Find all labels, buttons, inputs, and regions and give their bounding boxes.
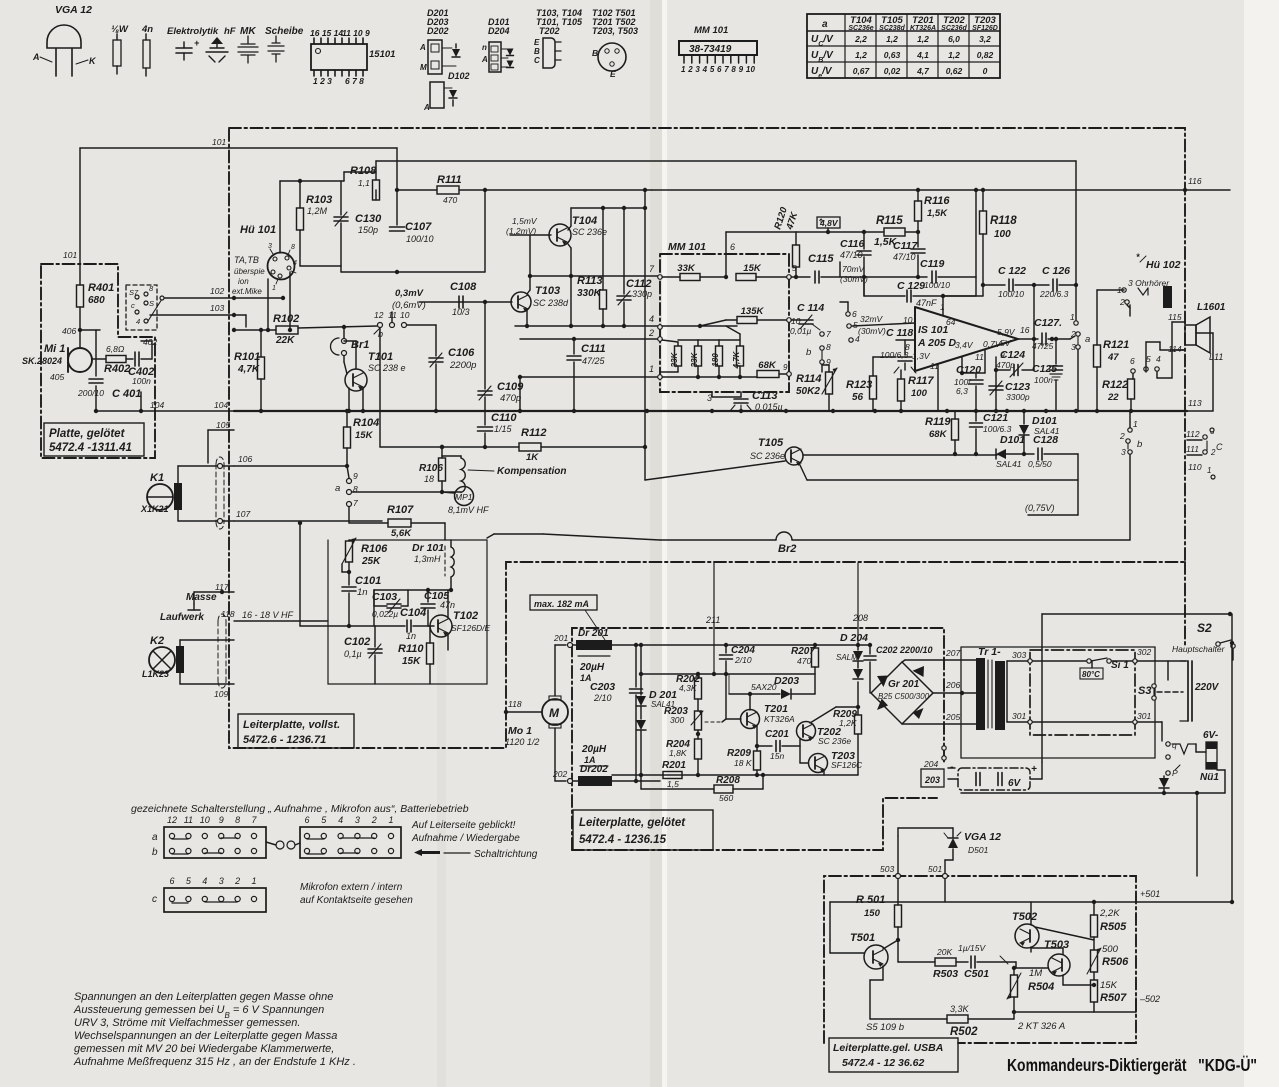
svg-text:A 205 D: A 205 D (917, 337, 957, 349)
svg-text:7: 7 (826, 329, 831, 339)
wire -502 (1093, 1011, 1095, 1013)
wire 102 (162, 297, 283, 299)
svg-text:2: 2 (648, 328, 654, 338)
svg-text:SC 236e: SC 236e (818, 736, 851, 746)
wire module top supply (796, 231, 828, 233)
svg-text:C 126: C 126 (1042, 265, 1070, 277)
jack Hue101 (268, 253, 295, 280)
capacitor C201 (775, 741, 777, 752)
wire contact3 down (1077, 350, 1079, 411)
svg-text:470: 470 (797, 656, 811, 666)
svg-text:6: 6 (304, 815, 309, 825)
wire 272 loop (341, 271, 485, 273)
svg-text:D204: D204 (488, 26, 510, 36)
capacitor C123 (989, 385, 1003, 387)
svg-text:107: 107 (236, 509, 250, 519)
svg-text:Tr 1-: Tr 1- (978, 646, 1001, 658)
resistor R502 (870, 1018, 947, 1020)
svg-text:R123: R123 (846, 379, 872, 391)
power bottom wire (961, 792, 1225, 794)
svg-text:33K: 33K (677, 263, 696, 274)
svg-text:6V: 6V (1008, 778, 1022, 789)
svg-text:C: C (534, 56, 540, 65)
svg-text:MK: MK (240, 26, 256, 37)
switch block a b right (300, 827, 401, 858)
wire battery to S2 rail (1041, 647, 1043, 762)
svg-text:10/3: 10/3 (452, 307, 470, 317)
svg-text:A: A (32, 52, 40, 62)
svg-text:(30mV): (30mV) (858, 326, 886, 336)
relay contact P diode (1166, 771, 1170, 775)
svg-text:1120 1/2: 1120 1/2 (505, 737, 539, 747)
svg-text:1/15: 1/15 (494, 424, 513, 434)
svg-text:D202: D202 (427, 26, 449, 36)
svg-text:3,3K: 3,3K (950, 1004, 970, 1014)
contacts on 944 edge (942, 746, 946, 750)
svg-text:303: 303 (1012, 650, 1026, 660)
svg-text:150: 150 (864, 908, 881, 919)
svg-text:Laufwerk: Laufwerk (160, 612, 204, 623)
svg-text:R208: R208 (716, 775, 740, 786)
resistor R207 (814, 645, 816, 648)
wire T502 collector (1035, 927, 1094, 940)
dashed slider wire R203 (705, 721, 722, 723)
svg-text:500: 500 (1102, 944, 1119, 955)
svg-text:3300p: 3300p (1006, 392, 1030, 402)
svg-text:33K: 33K (670, 351, 679, 367)
wire R504 tap (1021, 987, 1028, 989)
svg-text:Elektrolytik: Elektrolytik (167, 26, 219, 37)
svg-text:C201: C201 (765, 729, 789, 740)
capacitor C116 (863, 232, 865, 249)
svg-text:SC236d: SC236d (941, 25, 967, 32)
capacitor C102 (368, 648, 382, 650)
svg-text:100/6.3: 100/6.3 (983, 424, 1012, 434)
svg-text:T501: T501 (850, 932, 875, 944)
wire T105 emitter (799, 463, 807, 480)
svg-text:R122: R122 (1102, 379, 1128, 391)
fuse Si1 80C (1087, 659, 1091, 663)
svg-text:560: 560 (719, 793, 733, 803)
svg-text:C130: C130 (355, 213, 382, 225)
svg-text:hF: hF (224, 26, 236, 37)
svg-text:20µH: 20µH (579, 662, 605, 673)
svg-text:C111: C111 (581, 343, 606, 355)
svg-text:5: 5 (1146, 354, 1151, 364)
svg-text:12: 12 (167, 815, 177, 825)
transistor T501 (864, 945, 888, 969)
svg-text:+: + (1031, 764, 1037, 775)
svg-text:–502: –502 (1139, 994, 1160, 1004)
svg-text:5,9V: 5,9V (997, 327, 1016, 337)
wire C116 R115 (827, 228, 829, 232)
svg-text:R103: R103 (306, 194, 332, 206)
svg-text:Kommandeurs-Diktiergerät "KD: Kommandeurs-Diktiergerät "KDG-Ü" (1007, 1055, 1257, 1075)
wire T105 base (645, 461, 785, 480)
svg-text:47nF: 47nF (916, 298, 937, 308)
svg-text:c: c (131, 301, 135, 310)
wire 206 (933, 692, 976, 694)
potentiometer R114 (821, 365, 823, 372)
node 201 (568, 643, 573, 648)
svg-text:D101: D101 (1000, 434, 1025, 446)
potentiometer R106 (348, 540, 350, 541)
svg-text:a: a (152, 832, 158, 843)
svg-text:8,1mV HF: 8,1mV HF (448, 505, 489, 515)
svg-text:1 2 3: 1 2 3 (313, 76, 332, 86)
power inner box wire 674 (641, 673, 815, 675)
wire oscillator out (487, 534, 494, 538)
svg-text:R121: R121 (1103, 339, 1129, 351)
svg-text:Br2: Br2 (778, 543, 796, 555)
svg-text:114: 114 (1168, 344, 1182, 354)
svg-text:5AX20: 5AX20 (751, 682, 777, 692)
node 406 (78, 328, 82, 332)
svg-text:204: 204 (923, 759, 938, 769)
svg-text:Gr 201: Gr 201 (888, 679, 920, 690)
svg-text:1K: 1K (526, 452, 539, 463)
supply bus 161 (376, 160, 1076, 162)
wire 103 (150, 314, 246, 316)
svg-text:C113: C113 (752, 390, 777, 402)
capacitor C402 (134, 352, 136, 366)
svg-text:Hü 102: Hü 102 (1146, 259, 1181, 271)
transistor T103 (511, 292, 531, 312)
svg-text:8: 8 (826, 342, 831, 352)
resistor R107 (348, 507, 350, 523)
svg-text:R112: R112 (521, 427, 546, 439)
svg-text:R107: R107 (387, 504, 414, 516)
module MM101 box (660, 254, 789, 392)
svg-text:a: a (335, 483, 340, 494)
capacitor C130 trimmer (334, 216, 348, 218)
svg-text:a: a (1085, 334, 1090, 345)
svg-text:TA,TB: TA,TB (234, 255, 259, 265)
svg-text:6: 6 (852, 309, 857, 319)
svg-text:R110: R110 (398, 643, 424, 655)
svg-text:b: b (806, 347, 811, 358)
svg-text:0,02: 0,02 (884, 66, 901, 76)
wire C122 C126 (983, 284, 1005, 286)
svg-text:C203: C203 (590, 681, 615, 693)
svg-text:1,2: 1,2 (948, 50, 960, 60)
svg-text:Dr 201: Dr 201 (578, 628, 609, 639)
svg-text:0,015µ: 0,015µ (755, 402, 783, 412)
svg-text:T502: T502 (1012, 911, 1037, 923)
legend IC 15101 (311, 44, 367, 70)
mic switch dashed box (126, 285, 157, 330)
svg-text:47/25: 47/25 (1032, 341, 1054, 351)
capacitor C124 (995, 357, 997, 411)
capacitor C105 (427, 590, 429, 602)
svg-text:100/10: 100/10 (998, 289, 1024, 299)
svg-text:402: 402 (143, 337, 157, 347)
resistor R116 (917, 190, 919, 201)
wire motor to 201 202 (554, 645, 556, 696)
svg-text:C 122: C 122 (998, 265, 1026, 277)
svg-text:M: M (549, 706, 560, 720)
svg-text:R101: R101 (234, 351, 260, 363)
svg-text:R506: R506 (1102, 956, 1129, 968)
contacts b 1 2 3 lower (1128, 428, 1132, 432)
svg-text:4: 4 (202, 876, 207, 886)
svg-text:C103: C103 (372, 591, 397, 603)
svg-text:470: 470 (443, 195, 457, 205)
capacitor C111 (573, 339, 575, 354)
svg-text:100/10: 100/10 (924, 280, 950, 290)
svg-text:R118: R118 (990, 215, 1017, 227)
svg-text:S7: S7 (129, 288, 139, 297)
svg-text:Wechselspannungen an der Le: Wechselspannungen an der Leiterplatte ge… (74, 1030, 337, 1042)
shield K2 dashed (218, 614, 226, 688)
potentiometer R203 (695, 711, 702, 730)
svg-text:203: 203 (924, 775, 940, 785)
svg-text:0,67: 0,67 (853, 66, 871, 76)
jack pin wire to R102 (289, 272, 291, 330)
svg-text:10: 10 (903, 315, 913, 325)
wire +501 rail (944, 879, 946, 902)
node 503 (896, 874, 901, 879)
svg-text:SAL41: SAL41 (1034, 426, 1060, 436)
wire jack top (279, 181, 281, 253)
svg-text:180: 180 (711, 353, 720, 367)
resistor R201 (663, 772, 682, 779)
svg-text:0: 0 (983, 66, 988, 76)
diode D101 vertical (1023, 411, 1025, 424)
voltage table (807, 14, 1000, 78)
wire jack to R121 (1097, 289, 1124, 291)
wire 285 to opamp top (982, 285, 984, 296)
resistor R104 (346, 411, 348, 427)
resistor R118 (982, 190, 984, 211)
svg-text:1,2: 1,2 (917, 34, 929, 44)
mains box dashdot (1030, 650, 1135, 735)
svg-text:+: + (194, 38, 200, 48)
svg-text:300: 300 (670, 715, 684, 725)
svg-text:gezeichnete Schalterstellung: gezeichnete Schalterstellung „ Aufnahme … (131, 803, 469, 815)
svg-text:0,1µ: 0,1µ (344, 649, 362, 659)
svg-text:Dr 101: Dr 101 (412, 542, 444, 554)
svg-text:A: A (423, 103, 430, 112)
transistor T502 (1015, 924, 1039, 948)
svg-text:A: A (419, 43, 426, 52)
svg-text:0,7V: 0,7V (983, 339, 1002, 349)
capacitor C204 (725, 645, 727, 653)
capacitor C110 (484, 411, 486, 425)
svg-text:100: 100 (911, 388, 928, 399)
svg-text:T203, T503: T203, T503 (592, 26, 638, 36)
svg-text:15K: 15K (743, 263, 762, 274)
svg-text:220/6.3: 220/6.3 (1039, 289, 1069, 299)
svg-text:4: 4 (136, 317, 140, 326)
transistor T101 (345, 369, 367, 391)
contacts 6 5 4 (1131, 369, 1135, 373)
resistor R208 (714, 785, 733, 793)
svg-text:C115: C115 (808, 253, 834, 265)
wire 645 vertical (644, 190, 646, 480)
svg-text:D203: D203 (774, 675, 799, 687)
svg-text:1: 1 (388, 815, 393, 825)
svg-text:22K: 22K (275, 335, 295, 346)
svg-text:12: 12 (374, 310, 384, 320)
svg-text:C121: C121 (983, 412, 1008, 424)
svg-text:68K: 68K (758, 360, 777, 371)
svg-text:405: 405 (50, 372, 64, 382)
svg-text:110: 110 (1188, 462, 1202, 472)
capacitor C501 (970, 956, 972, 968)
svg-text:47/25: 47/25 (582, 356, 606, 366)
svg-text:K1: K1 (150, 472, 164, 484)
opamp output 16 (1018, 338, 1038, 340)
resistor R113 (602, 208, 604, 290)
svg-text:105: 105 (216, 420, 230, 430)
svg-text:20µH: 20µH (581, 744, 607, 755)
svg-text:Spannungen an den Leiterplatt: Spannungen an den Leiterplatten gegen Ma… (74, 991, 333, 1003)
svg-text:11: 11 (975, 352, 984, 362)
bus 190 right (652, 189, 1230, 191)
svg-text:1,5mV: 1,5mV (512, 216, 538, 226)
measuring point MP1 (455, 487, 474, 506)
svg-text:503: 503 (880, 864, 894, 874)
transistor T102 (430, 615, 452, 637)
svg-text:R116: R116 (924, 195, 950, 207)
svg-text:R507: R507 (1100, 992, 1127, 1004)
svg-text:3,2: 3,2 (979, 34, 991, 44)
svg-text:max. 182 mA: max. 182 mA (534, 599, 589, 609)
wire pin2 (520, 338, 658, 340)
svg-text:15K: 15K (355, 430, 374, 441)
svg-text:104: 104 (150, 400, 164, 410)
capacitor C115 (814, 271, 816, 283)
capacitor C117 (917, 232, 919, 247)
svg-text:SC 238 e: SC 238 e (368, 363, 406, 373)
power outer solid box (961, 647, 1155, 758)
svg-text:4,7K: 4,7K (237, 364, 260, 375)
resistor R120 (793, 245, 800, 267)
svg-text:R504: R504 (1028, 981, 1054, 993)
svg-text:⅛W: ⅛W (111, 24, 129, 35)
svg-text:Mikrofon extern / intern: Mikrofon extern / intern (300, 882, 403, 893)
svg-text:D102: D102 (448, 71, 470, 81)
svg-text:L1K23: L1K23 (142, 669, 169, 679)
svg-text:1,3mH: 1,3mH (414, 554, 441, 564)
svg-text:c: c (152, 894, 157, 905)
svg-text:4: 4 (293, 260, 297, 267)
svg-text:1,2: 1,2 (855, 50, 867, 60)
module right pin wires (787, 275, 792, 280)
svg-text:202: 202 (552, 769, 567, 779)
svg-text:(1,2mV): (1,2mV) (506, 226, 536, 236)
svg-text:5,6K: 5,6K (391, 528, 412, 539)
resistor R112 (380, 446, 519, 448)
svg-text:101: 101 (63, 250, 77, 260)
wire 107 (177, 510, 179, 521)
svg-text:R117: R117 (908, 375, 934, 387)
svg-text:1: 1 (1133, 419, 1138, 429)
svg-text:1,5K: 1,5K (927, 208, 948, 219)
svg-text:6 7 8: 6 7 8 (345, 76, 364, 86)
svg-text:n: n (482, 43, 487, 52)
svg-text:Aufnahme / Wiedergabe: Aufnahme / Wiedergabe (411, 833, 520, 844)
svg-text:C119: C119 (920, 258, 944, 270)
capacitor C112 trimmer (617, 295, 631, 297)
svg-text:Nü1: Nü1 (1200, 772, 1219, 783)
svg-text:C120: C120 (956, 364, 981, 376)
potentiometer R506 (1091, 950, 1098, 972)
label box Leiterplatte vollst 5472.6-1236.71 (238, 714, 354, 748)
resistor R111 (437, 186, 459, 194)
svg-text:1,8K: 1,8K (669, 748, 687, 758)
svg-text:Scheibe: Scheibe (265, 26, 304, 37)
resistor R101 (260, 330, 262, 357)
svg-text:9: 9 (219, 815, 224, 825)
svg-text:R505: R505 (1100, 921, 1127, 933)
svg-text:C 114: C 114 (797, 302, 824, 314)
svg-text:X1K21: X1K21 (140, 504, 169, 514)
wire T104 collector 208 (568, 226, 571, 230)
resistor R503 (935, 958, 956, 966)
transistor T503 (1048, 954, 1070, 976)
wire T501 base from R503 (897, 940, 899, 962)
svg-text:2,2: 2,2 (854, 34, 867, 44)
wire bus 276 (530, 275, 660, 277)
svg-text:T202: T202 (539, 26, 560, 36)
resistor R204 (695, 739, 702, 759)
svg-text:R111: R111 (437, 174, 462, 186)
svg-text:C501: C501 (964, 968, 989, 980)
wire 109 (179, 640, 181, 646)
potentiometer R504 (1013, 968, 1015, 975)
svg-text:4: 4 (649, 314, 654, 324)
wire node 101 to frame (79, 264, 81, 285)
svg-text:4: 4 (1156, 354, 1161, 364)
svg-text:330K: 330K (577, 288, 602, 299)
node 202 (568, 779, 573, 784)
wire b3 down to Br2 (1129, 455, 1131, 540)
svg-text:D501: D501 (968, 845, 989, 855)
svg-text:KT326A: KT326A (910, 25, 936, 32)
contacts a 9 8 7 (347, 479, 352, 484)
svg-text:206: 206 (945, 680, 960, 690)
rail 202 lower (612, 774, 858, 776)
page fold shading (650, 0, 662, 1087)
svg-text:0,3mV: 0,3mV (395, 288, 424, 299)
svg-text:Masse: Masse (186, 592, 217, 603)
svg-text:50K2: 50K2 (796, 386, 820, 397)
opamp bottom pins (937, 364, 939, 411)
svg-text:SK.28024: SK.28024 (22, 356, 62, 366)
svg-text:R201: R201 (662, 760, 686, 771)
resistor ladder 33K 33K 180 4.7K (675, 346, 682, 366)
svg-text:47: 47 (1107, 352, 1119, 363)
svg-text:C127.: C127. (1034, 317, 1062, 329)
wire 114 113 (1145, 342, 1147, 372)
svg-text:C110: C110 (491, 412, 517, 424)
svg-text:220V: 220V (1194, 682, 1220, 693)
resistor R106 18 and Kompensation coil (441, 447, 443, 456)
svg-text:4n: 4n (141, 24, 153, 35)
svg-text:C107: C107 (405, 221, 432, 233)
svg-text:4,1: 4,1 (916, 50, 929, 60)
svg-text:gemessen mit MV 20 bei Wie: gemessen mit MV 20 bei Wiedergabe Klamme… (74, 1043, 334, 1055)
label box Platte geloetet 5472.4-1311.41 (44, 423, 144, 456)
svg-text:überspie: überspie (234, 267, 265, 276)
svg-text:5472.4 - 1236.15: 5472.4 - 1236.15 (579, 834, 667, 846)
contacts a 1 2 3 (1074, 321, 1078, 325)
jumper Br2 (543, 534, 660, 540)
svg-text:MM 101: MM 101 (668, 241, 706, 253)
svg-text:6V-: 6V- (1203, 730, 1219, 741)
